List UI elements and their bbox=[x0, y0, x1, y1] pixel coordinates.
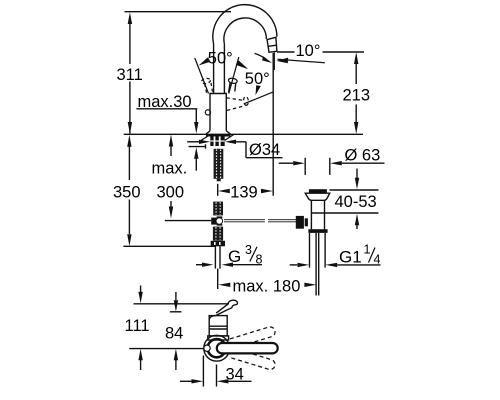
spout inner arc bbox=[224, 18, 266, 44]
handle solid lever bbox=[229, 82, 236, 93]
max.300 bottom reference line (to pop-up rod) bbox=[165, 220, 211, 222]
dimension 213 vertical line bbox=[355, 63, 357, 123]
shank tip bbox=[217, 179, 221, 182]
dimension Ø63 bbox=[279, 162, 293, 164]
dimension 34 bbox=[203, 356, 216, 387]
supply pipe bbox=[215, 246, 220, 268]
drain tailpipe bbox=[310, 233, 326, 268]
aerator tip bbox=[267, 37, 277, 52]
svg-text:3: 3 bbox=[245, 243, 252, 257]
bottom view: swivel outer circle bbox=[204, 335, 230, 361]
dimension Ø34 arrows bbox=[187, 141, 199, 143]
top reference line (spout height) bbox=[125, 11, 232, 13]
drain body bbox=[311, 200, 324, 229]
bottom view: dashed spout positions bbox=[230, 326, 276, 371]
svg-text:50°: 50° bbox=[245, 70, 270, 88]
supply nut bbox=[211, 241, 225, 247]
dimension 311 vertical line bbox=[129, 22, 131, 134]
lower 50deg lower arc arrow bbox=[256, 85, 261, 95]
threaded section below rod bbox=[213, 227, 223, 241]
drain bottom nut bbox=[308, 229, 327, 233]
bottom reference line (spout axis) bbox=[129, 348, 204, 350]
dimension 139 arrows bbox=[218, 189, 230, 193]
max.30 down arrow to deck top bbox=[194, 122, 198, 134]
dimension G3/8 bbox=[196, 264, 202, 266]
10-degree slanted line bbox=[278, 59, 325, 63]
svg-text:40-53: 40-53 bbox=[335, 193, 377, 211]
svg-text:34: 34 bbox=[226, 366, 244, 384]
bottom view: lever handle bbox=[215, 304, 229, 315]
outlet extension line (to 139) bbox=[272, 53, 274, 196]
213 top arrow bbox=[354, 52, 358, 64]
dimension G1 1/4 bbox=[290, 264, 298, 266]
bottom view: body bbox=[209, 316, 227, 336]
bottom view: dark swivel ring bbox=[208, 339, 226, 357]
svg-text:max. 180: max. 180 bbox=[233, 278, 301, 296]
10-degree vertical tick at outlet bbox=[273, 53, 275, 71]
40-53 upper reference line bbox=[330, 189, 379, 191]
svg-text:G1: G1 bbox=[339, 248, 362, 267]
svg-text:84: 84 bbox=[165, 325, 183, 343]
svg-text:350: 350 bbox=[113, 183, 141, 201]
10-degree angle arrow bbox=[276, 58, 288, 64]
139 left extension line bbox=[217, 184, 219, 196]
body base flare bbox=[206, 131, 230, 134]
upper 50deg right radial bbox=[229, 57, 239, 93]
lower 50deg arc with arrow (upper) bbox=[255, 53, 268, 61]
bottom view: dimension 111 bbox=[140, 286, 142, 293]
deck (mounting surface) line bbox=[124, 133, 363, 135]
right dashed handle (rotated position) bbox=[227, 96, 249, 110]
svg-text:50°: 50° bbox=[208, 49, 233, 67]
drain flange bbox=[305, 193, 329, 200]
svg-text:8: 8 bbox=[256, 253, 263, 267]
bottom view: dimension 84 bbox=[175, 292, 177, 300]
dimension 350 bottom arrow bbox=[127, 234, 131, 246]
handle cap ellipse bbox=[228, 78, 238, 84]
mounting nut bbox=[210, 136, 224, 146]
dimension max.180 bbox=[218, 283, 230, 287]
Ø34 leader bbox=[236, 142, 283, 158]
svg-text:4: 4 bbox=[374, 253, 381, 267]
left dashed handle (rotated position) bbox=[201, 78, 212, 93]
dimension 40-53 upper arrow bbox=[356, 169, 358, 179]
dimension max.300 vertical line bbox=[170, 146, 172, 207]
213 bottom arrow bbox=[354, 122, 358, 134]
pop-up rod horizontal bbox=[224, 220, 296, 222]
svg-text:G: G bbox=[228, 247, 241, 266]
upper 50deg right arc arrow bbox=[236, 60, 249, 69]
bottom view: collar bbox=[208, 336, 229, 340]
threaded shank upper bbox=[214, 149, 224, 179]
drain Ø63 extension lines bbox=[305, 158, 330, 175]
spout riser bbox=[214, 44, 225, 94]
svg-text:311: 311 bbox=[117, 66, 143, 84]
dimension 311 bottom arrow bbox=[128, 122, 132, 134]
lower 50deg leg line bbox=[245, 92, 273, 103]
small knob on body left bbox=[205, 110, 210, 115]
svg-text:139: 139 bbox=[230, 183, 258, 201]
dimension 311 top arrow bbox=[128, 12, 132, 24]
svg-text:max.: max. bbox=[152, 160, 188, 178]
svg-text:213: 213 bbox=[343, 87, 371, 105]
threaded section above rod bbox=[213, 202, 223, 216]
dimension 350 top arrow bbox=[127, 135, 131, 147]
svg-text:300: 300 bbox=[157, 183, 185, 201]
svg-text:1: 1 bbox=[364, 243, 371, 257]
max.300 top arrow bbox=[169, 135, 173, 147]
svg-text:Ø 63: Ø 63 bbox=[345, 147, 381, 165]
svg-text:Ø34: Ø34 bbox=[249, 141, 280, 159]
max.300 bottom arrow bbox=[169, 207, 173, 219]
350 bottom reference line bbox=[123, 245, 215, 247]
40-53 lower reference line (deck level) bbox=[311, 212, 378, 214]
svg-text:10°: 10° bbox=[296, 42, 321, 60]
drain inner pipe bbox=[316, 233, 319, 296]
svg-text:111: 111 bbox=[125, 317, 150, 335]
max.30 up arrow to deck underside bbox=[194, 147, 198, 159]
drain rod knob bbox=[296, 216, 304, 229]
pop-up rod ball joint bbox=[211, 218, 216, 225]
diagonal ticks at nut bbox=[201, 134, 234, 140]
escutcheon bar below deck bbox=[206, 134, 230, 136]
drain plug top bbox=[309, 189, 327, 193]
faucet body bbox=[210, 94, 226, 131]
upper 50deg left arc arrow bbox=[199, 57, 211, 65]
supply pipe center line bbox=[217, 269, 219, 289]
dimension 350 vertical line bbox=[128, 146, 130, 234]
bottom view: spout capsule bbox=[217, 343, 278, 353]
upper 50deg left radial bbox=[195, 58, 209, 94]
10-degree reference line (also 213 top ref) bbox=[277, 51, 364, 53]
40-53 lower arrow bbox=[355, 214, 359, 226]
spout outer arc bbox=[213, 5, 277, 44]
deck underside line bbox=[189, 144, 206, 148]
rod knob in bottom view bbox=[204, 345, 210, 351]
